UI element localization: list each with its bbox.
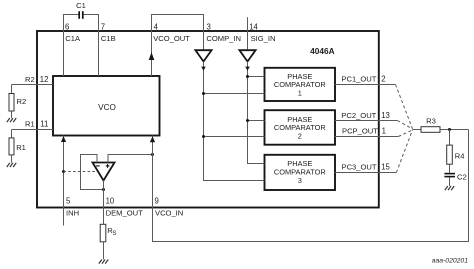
- svg-text:12: 12: [40, 75, 49, 84]
- ground R2: [7, 118, 16, 122]
- wire PC1_OUT: [335, 84, 396, 86]
- wire pin6 C1A vertical: [63, 15, 65, 77]
- wire PCP_OUT: [335, 136, 398, 138]
- arrow up into VCO (VCO_IN): [150, 136, 155, 142]
- svg-text:C1: C1: [76, 1, 86, 10]
- svg-text:7: 7: [101, 23, 105, 32]
- arrow down SIG_IN: [245, 67, 250, 71]
- svg-text:INH: INH: [66, 209, 79, 218]
- arrow down COMP_IN: [201, 67, 206, 71]
- wire SIG to PC1 input: [248, 76, 265, 78]
- wire DEM_OUT down: [103, 181, 105, 225]
- dashed PCP to node: [398, 130, 412, 137]
- wire pin14 stub: [247, 17, 249, 31]
- dashed PC2 to node: [397, 121, 412, 130]
- svg-text:4: 4: [154, 23, 159, 32]
- wire C2 to ground: [449, 177, 451, 186]
- resistor RS: [100, 224, 106, 242]
- svg-text:R2: R2: [25, 75, 35, 84]
- wire INH line: [63, 136, 65, 226]
- ground RS: [99, 260, 108, 264]
- svg-text:C1B: C1B: [101, 34, 116, 43]
- wire R3 to corner: [440, 129, 469, 131]
- svg-text:4046A: 4046A: [310, 46, 334, 56]
- svg-text:1: 1: [382, 126, 386, 135]
- svg-text:VCO: VCO: [98, 103, 116, 112]
- svg-text:PCP_OUT: PCP_OUT: [342, 126, 378, 135]
- wire SIG_IN bus: [248, 62, 265, 164]
- svg-text:VCO_IN: VCO_IN: [155, 209, 183, 218]
- node follower output: [102, 188, 105, 191]
- phase comparator 2 box: [265, 110, 336, 145]
- svg-text:9: 9: [155, 197, 159, 206]
- svg-text:3: 3: [298, 176, 302, 185]
- dashed PC3 to node: [396, 130, 412, 173]
- node INH dashed branch: [62, 170, 65, 173]
- arrow up into VCO (INH): [61, 136, 66, 142]
- svg-text:R3: R3: [426, 117, 436, 126]
- wire R4 to C2: [449, 164, 451, 173]
- wire COMP_IN bus: [204, 62, 265, 181]
- ground R1: [7, 163, 16, 167]
- svg-text:10: 10: [106, 197, 115, 206]
- wire C1 top left: [63, 14, 79, 16]
- wire R2 pin12: [12, 84, 54, 86]
- svg-text:14: 14: [249, 23, 258, 32]
- svg-text:SIG_IN: SIG_IN: [251, 34, 276, 43]
- wire follower feedback: [81, 155, 104, 190]
- wire COMP to PC2 input: [204, 136, 265, 138]
- amplifier COMP_IN: [195, 50, 211, 61]
- resistor R2: [11, 85, 13, 94]
- svg-text:aaa-020201: aaa-020201: [432, 257, 469, 264]
- wire pin14 into amp: [247, 31, 249, 50]
- wire C1 top right: [83, 14, 99, 16]
- resistor R3: [421, 127, 440, 133]
- wire pin7 C1B vertical: [98, 15, 100, 77]
- svg-text:R1: R1: [16, 143, 26, 152]
- resistor R1: [11, 130, 13, 138]
- wire VCO_IN line: [153, 130, 469, 242]
- phase comparator 3 box: [265, 155, 336, 190]
- phase comparator 1 box: [265, 68, 336, 101]
- arrow up VCO_OUT: [149, 52, 155, 60]
- svg-text:2: 2: [381, 75, 385, 84]
- svg-text:PC1_OUT: PC1_OUT: [341, 75, 376, 84]
- svg-text:3: 3: [207, 23, 211, 32]
- svg-text:DEM_OUT: DEM_OUT: [106, 209, 143, 218]
- node SIG PC2: [246, 119, 249, 122]
- svg-text:C1A: C1A: [65, 34, 81, 43]
- svg-text:6: 6: [65, 23, 69, 32]
- node on VCO_IN line: [151, 153, 154, 156]
- wire follower plus input: [108, 155, 153, 163]
- wire SIG to PC2 input: [248, 120, 265, 122]
- svg-text:1: 1: [298, 88, 302, 97]
- IC outer box 4046A: [37, 31, 379, 208]
- VCO box: [53, 76, 160, 136]
- svg-text:VCO_OUT: VCO_OUT: [153, 34, 190, 43]
- wire pin4 to pin3 bridge: [152, 15, 204, 32]
- svg-text:COMP_IN: COMP_IN: [206, 34, 241, 43]
- svg-text:15: 15: [381, 162, 390, 171]
- wire PC2_OUT: [335, 120, 397, 122]
- wire COMP to PC1 input: [204, 93, 265, 95]
- resistor R4: [447, 145, 453, 164]
- capacitor C2: [444, 173, 455, 175]
- svg-text:R1: R1: [25, 120, 35, 129]
- svg-text:R4: R4: [455, 152, 465, 161]
- svg-text:2: 2: [298, 131, 302, 140]
- wire dashed inhibit to follower: [64, 171, 98, 173]
- wire PC3_OUT: [335, 172, 396, 174]
- svg-text:C2: C2: [457, 172, 467, 181]
- wire node to R3: [413, 129, 422, 131]
- dashed PC1 to node: [396, 85, 413, 129]
- svg-text:13: 13: [381, 111, 390, 120]
- wire VCO_OUT vertical: [151, 31, 153, 76]
- svg-text:PC3_OUT: PC3_OUT: [342, 162, 377, 171]
- capacitor C1: [78, 11, 80, 19]
- svg-text:PC2_OUT: PC2_OUT: [341, 111, 376, 120]
- node COMP PC1: [202, 92, 205, 95]
- svg-text:11: 11: [40, 120, 48, 129]
- wire R1 pin11: [12, 129, 54, 131]
- svg-text:S: S: [112, 231, 116, 237]
- node R3 R4 junction: [448, 128, 451, 131]
- node COMP PC2: [202, 135, 205, 138]
- node SIG PC1: [246, 75, 249, 78]
- svg-text:5: 5: [66, 197, 71, 206]
- wire junction to R4: [449, 130, 451, 146]
- op-amp follower DEM: [93, 163, 115, 181]
- amplifier SIG_IN: [239, 50, 255, 61]
- svg-text:R2: R2: [17, 97, 27, 106]
- ground C2: [445, 186, 454, 190]
- wire pin3 into amp: [203, 31, 205, 50]
